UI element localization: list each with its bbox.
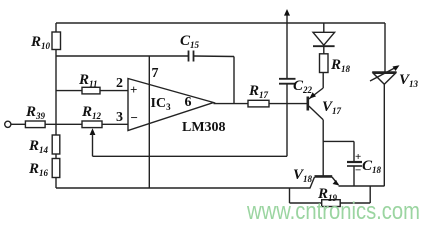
- svg-text:V17: V17: [322, 99, 342, 116]
- wire bottom rail: [56, 187, 311, 189]
- resistor R18: [320, 54, 351, 74]
- svg-text:3: 3: [116, 110, 123, 125]
- svg-text:V13: V13: [399, 72, 419, 89]
- svg-text:R10: R10: [30, 34, 51, 51]
- svg-text:C15: C15: [180, 33, 200, 50]
- op-amp U1 IC3 LM308: [116, 66, 226, 135]
- svg-text:R16: R16: [28, 161, 49, 178]
- wire op-amp output: [214, 103, 249, 105]
- resistor R16: [28, 159, 60, 179]
- svg-text:−: −: [355, 165, 361, 177]
- input terminal: [5, 121, 26, 127]
- resistor R17: [248, 83, 269, 107]
- adjustable zener V13: [370, 23, 419, 186]
- wire op-amp pin7/pin4 vertical: [148, 56, 150, 188]
- resistor R12 (adjustable): [81, 104, 102, 156]
- svg-text:R18: R18: [330, 57, 351, 74]
- svg-text:2: 2: [116, 76, 123, 91]
- capacitor C18 (electrolytic): [347, 151, 382, 186]
- power supply arrow: [284, 9, 290, 23]
- svg-text:+: +: [130, 82, 137, 97]
- svg-text:www.cntronics.com: www.cntronics.com: [246, 198, 420, 225]
- resistor R14: [28, 135, 60, 155]
- diode: [313, 23, 335, 54]
- transistor V17 (PNP): [308, 73, 342, 120]
- svg-text:R17: R17: [248, 83, 269, 100]
- resistor R11: [56, 72, 128, 94]
- svg-text:C22: C22: [293, 78, 313, 95]
- svg-text:C18: C18: [362, 158, 382, 175]
- wire feedback from output to R12 wiper: [93, 104, 288, 157]
- wire left rail: [55, 23, 57, 188]
- resistor R39: [25, 104, 46, 128]
- capacitor C15: [180, 33, 200, 62]
- wire R12 to op-amp pin 3: [102, 123, 128, 125]
- wire V17 collector down to V18 base: [323, 120, 354, 176]
- svg-text:LM308: LM308: [182, 120, 226, 135]
- wire R19 to emitter rail: [340, 186, 370, 203]
- svg-text:R14: R14: [28, 138, 49, 155]
- capacitor C22: [279, 23, 313, 104]
- svg-text:R12: R12: [81, 104, 102, 121]
- svg-text:R39: R39: [25, 104, 46, 121]
- resistor R19: [317, 186, 340, 207]
- svg-text:IC3: IC3: [151, 96, 172, 112]
- svg-text:+: +: [355, 151, 361, 163]
- svg-text:V18: V18: [293, 167, 313, 184]
- wire emitter rail (V18 emitter, C18, V13 bottom): [339, 185, 385, 187]
- wire R39 to R12: [45, 123, 82, 125]
- svg-text:R11: R11: [78, 72, 98, 89]
- resistor R10: [30, 32, 61, 51]
- svg-text:7: 7: [152, 66, 159, 81]
- svg-text:6: 6: [185, 95, 192, 110]
- wire R17 to V17 base: [269, 103, 307, 105]
- transistor V18 (NPN): [293, 167, 339, 188]
- wire B (upper horizontal to C15): [56, 56, 234, 104]
- svg-text:−: −: [131, 110, 138, 125]
- wire top rail: [56, 22, 385, 24]
- wire bottom rail T down to R19: [290, 188, 322, 203]
